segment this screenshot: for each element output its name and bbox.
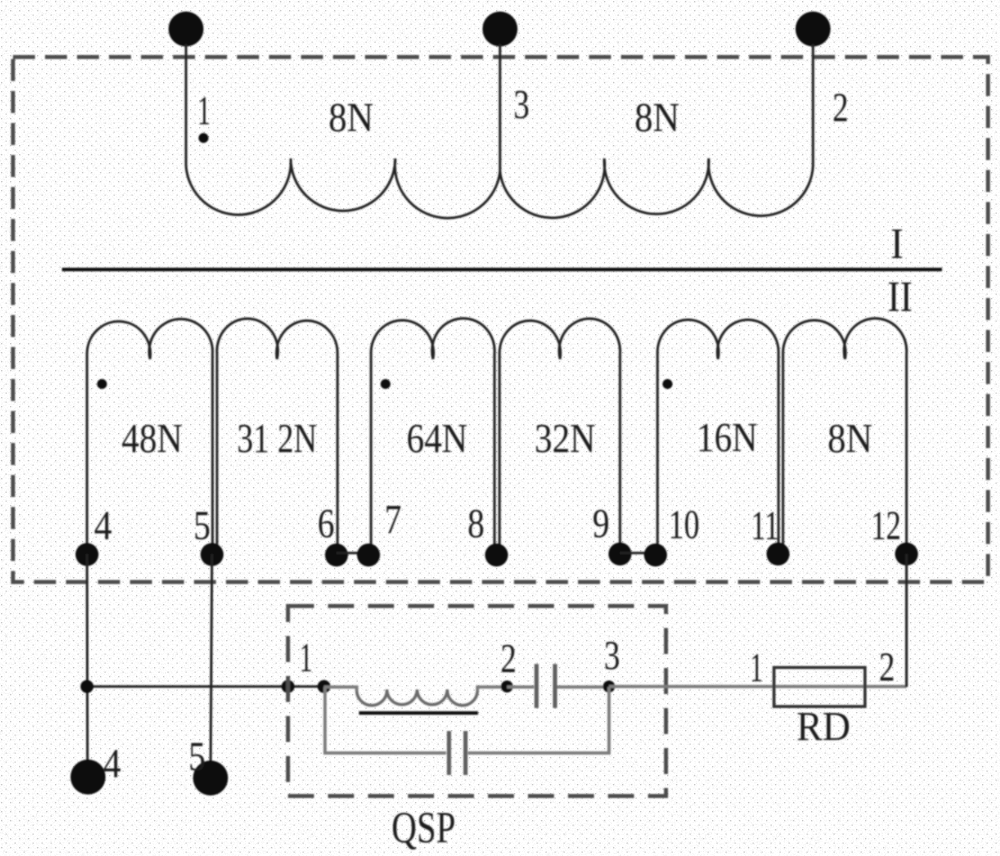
junction dot at QSP edge xyxy=(282,680,295,693)
svg-text:11: 11 xyxy=(751,502,779,548)
primary winding 8N (terminals 3-2) xyxy=(500,159,813,218)
inductor wire right xyxy=(478,687,508,691)
svg-text:1: 1 xyxy=(198,87,211,133)
svg-text:3: 3 xyxy=(604,632,620,678)
wire bus to QSP xyxy=(87,685,324,688)
svg-text:48N: 48N xyxy=(122,415,183,461)
inductor core bar xyxy=(359,711,478,715)
svg-text:31 2N: 31 2N xyxy=(237,415,317,461)
secondary winding 312N xyxy=(217,319,338,554)
capacitor C1 plates xyxy=(537,664,556,708)
polarity dot 64N xyxy=(381,379,391,389)
terminal 12 xyxy=(895,543,918,566)
terminal 1 pad xyxy=(169,12,204,47)
svg-text:4: 4 xyxy=(103,740,121,786)
svg-text:QSP: QSP xyxy=(392,803,456,852)
svg-text:1: 1 xyxy=(750,644,763,690)
capacitor C2 plates xyxy=(449,731,466,775)
wire C1 to node3 xyxy=(557,685,609,688)
node 2 dot xyxy=(501,681,513,693)
secondary winding 64N xyxy=(371,318,495,554)
resistor RD xyxy=(774,668,865,707)
svg-text:7: 7 xyxy=(385,496,402,542)
capacitor C2 branch wire right xyxy=(468,687,609,753)
link 9-10 xyxy=(620,552,656,555)
secondary winding 16N xyxy=(657,320,778,554)
terminal 10 xyxy=(644,544,667,567)
node 1 dot xyxy=(318,680,331,693)
svg-text:2: 2 xyxy=(501,635,517,681)
terminal 11 xyxy=(767,543,790,566)
inductor wire left xyxy=(324,687,357,691)
junction dot on wire 4 xyxy=(81,680,94,693)
secondary winding 48N xyxy=(87,319,213,554)
wire node3 to RD xyxy=(609,685,907,688)
terminal 4 xyxy=(76,543,99,566)
svg-text:I: I xyxy=(891,221,904,268)
svg-text:1: 1 xyxy=(300,634,313,680)
svg-text:64N: 64N xyxy=(407,415,468,461)
wire terminal 1 lead xyxy=(185,44,188,166)
wire terminal 2 lead xyxy=(812,44,815,166)
terminal 2 pad xyxy=(796,12,831,47)
svg-text:8N: 8N xyxy=(329,94,374,140)
secondary winding 8N xyxy=(783,318,907,554)
terminal 5 xyxy=(201,543,224,566)
svg-text:10: 10 xyxy=(669,501,700,547)
svg-text:8N: 8N xyxy=(635,94,680,140)
link 6-7 xyxy=(337,552,369,555)
terminal 6 xyxy=(325,544,348,567)
primary winding 8N (terminals 1-3) xyxy=(186,159,500,219)
terminal 8 xyxy=(485,544,508,567)
inductor L arcs xyxy=(357,690,478,706)
transformer dashed enclosure xyxy=(13,57,988,582)
polarity dot 16N xyxy=(663,379,673,389)
polarity dot 48N xyxy=(97,379,107,389)
polarity dot primary xyxy=(199,133,209,143)
capacitor C2 branch wire left xyxy=(325,687,446,753)
svg-text:4: 4 xyxy=(94,502,112,548)
wire terminal 4 down xyxy=(86,554,89,777)
svg-text:6: 6 xyxy=(318,500,335,546)
wire terminal 12 down xyxy=(905,554,908,687)
wire terminal 5 down xyxy=(211,554,213,778)
svg-text:3: 3 xyxy=(514,81,530,127)
svg-text:16N: 16N xyxy=(697,414,758,460)
svg-text:5: 5 xyxy=(189,733,206,779)
wire node2 to C1 xyxy=(507,685,534,688)
svg-text:RD: RD xyxy=(797,703,851,749)
node 3 dot xyxy=(603,681,615,693)
terminal 7 xyxy=(357,544,380,567)
terminal 4 bottom pad xyxy=(71,760,106,795)
secondary winding 32N xyxy=(499,319,620,554)
svg-text:8N: 8N xyxy=(828,415,873,461)
terminal 3 pad xyxy=(483,12,518,47)
svg-text:5: 5 xyxy=(194,502,211,548)
svg-text:9: 9 xyxy=(593,500,610,546)
svg-text:8: 8 xyxy=(468,500,485,546)
QSP dashed box xyxy=(288,606,666,796)
svg-text:II: II xyxy=(888,274,913,321)
terminal 5 bottom pad xyxy=(193,761,228,796)
terminal 9 xyxy=(609,543,632,566)
svg-text:32N: 32N xyxy=(535,415,596,461)
core bar xyxy=(62,268,942,272)
svg-text:2: 2 xyxy=(833,84,849,130)
svg-text:12: 12 xyxy=(871,502,901,548)
wire terminal 3 lead xyxy=(499,44,502,176)
svg-text:2: 2 xyxy=(879,644,895,690)
